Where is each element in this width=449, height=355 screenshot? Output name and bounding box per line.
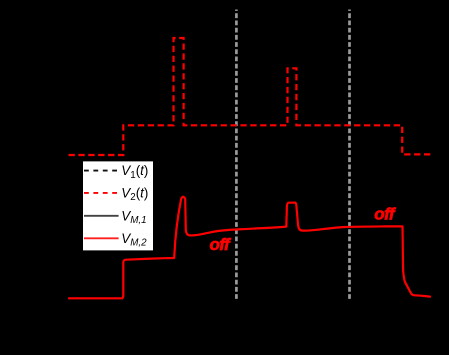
svg-text:off: off bbox=[210, 235, 233, 254]
legend sample VM,1 (dark solid) bbox=[84, 215, 119, 217]
svg-text:off: off bbox=[374, 205, 397, 224]
legend sample V2(t) (red dashed) bbox=[84, 192, 119, 194]
gridline t2 (gray dashed vertical) bbox=[348, 10, 351, 300]
legend box bbox=[82, 161, 153, 251]
legend sample V1(t) (black dashed) bbox=[84, 170, 119, 172]
legend sample VM,2 (red solid) bbox=[84, 237, 119, 239]
curve V2(t) (red dashed step waveform) bbox=[69, 38, 433, 155]
curve VM,2 (red solid measured waveform) bbox=[69, 197, 430, 299]
gridline t1 (gray dashed vertical) bbox=[235, 10, 238, 300]
